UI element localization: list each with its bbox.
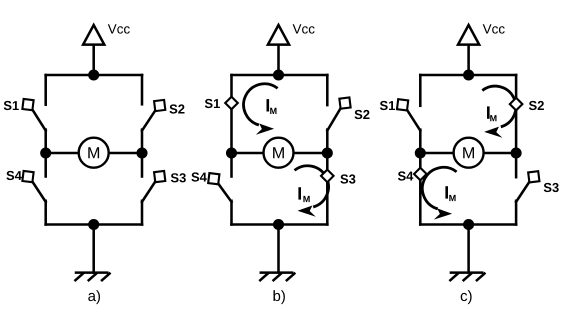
label S1 (c) bbox=[380, 101, 395, 110]
junction node bottom (a) bbox=[88, 219, 99, 230]
label S4 (a) bbox=[6, 171, 21, 180]
switch S3 (c) handle square bbox=[528, 171, 539, 182]
label b) bbox=[274, 290, 285, 304]
switch S2 (b) handle square bbox=[339, 97, 350, 108]
ground symbol (c) bbox=[450, 273, 484, 281]
bottom rail wire (a) bbox=[46, 223, 142, 226]
junction node mid-left (b) bbox=[226, 147, 237, 158]
switch S3 (a) lower wire bbox=[141, 201, 144, 225]
switch S1 (c) fixed contact wire bbox=[419, 75, 422, 106]
switch S2 (a) blade bbox=[142, 109, 156, 130]
switch S2 (c) closed-contact diamond bbox=[510, 98, 523, 111]
ground symbol (a) bbox=[75, 273, 109, 281]
switch S1 (c) lower wire bbox=[419, 130, 422, 153]
label c) bbox=[461, 290, 472, 304]
switch S4 (b) fixed contact wire bbox=[230, 153, 233, 177]
current loop arrow IM lower (b) bbox=[295, 166, 329, 217]
switch S2 (b) fixed contact wire bbox=[326, 75, 329, 105]
switch S1 (b) closed-contact diamond bbox=[225, 97, 238, 110]
switch S3 (a) blade bbox=[142, 180, 156, 201]
switch S3 (b) closed-contact diamond bbox=[321, 170, 334, 183]
motor M (a) bbox=[79, 138, 109, 168]
current label IM lower (b) bbox=[298, 187, 309, 202]
switch S1 (c) blade bbox=[406, 109, 420, 131]
ground wire (b) bbox=[277, 225, 280, 273]
switch S2 (a) handle square bbox=[154, 100, 165, 111]
switch S3 (b) wire (closed) bbox=[326, 153, 329, 225]
label S2 (c) bbox=[529, 101, 544, 110]
junction node bottom (c) bbox=[463, 219, 474, 230]
current loop arrow IM upper (c) bbox=[482, 86, 516, 138]
top rail wire (b) bbox=[231, 74, 327, 77]
junction node bottom (b) bbox=[273, 219, 284, 230]
label S1 (a) bbox=[4, 101, 19, 110]
bottom rail wire (b) bbox=[231, 223, 327, 226]
switch S2 (c) wire (closed) bbox=[515, 75, 518, 153]
motor M (b) bbox=[264, 138, 294, 168]
switch S2 (a) fixed contact wire bbox=[141, 75, 144, 104]
Vcc label (b) bbox=[293, 24, 315, 33]
label S3 (c) bbox=[544, 183, 559, 192]
label S4 (b) bbox=[191, 172, 206, 181]
label S3 (b) bbox=[340, 174, 355, 183]
switch S4 (c) wire (closed) bbox=[419, 153, 422, 225]
current loop arrow IM lower (c) bbox=[422, 167, 456, 219]
Vcc label (c) bbox=[483, 24, 505, 33]
current loop arrow IM upper (b) bbox=[244, 84, 278, 135]
current label IM upper (b) bbox=[267, 99, 277, 114]
switch S4 (a) blade bbox=[32, 180, 46, 201]
motor M (c) bbox=[454, 138, 484, 168]
switch S1 (a) fixed contact wire bbox=[44, 75, 47, 105]
junction node mid-right (a) bbox=[136, 147, 147, 158]
label S4 (c) bbox=[398, 171, 413, 180]
switch S4 (b) lower wire bbox=[230, 201, 233, 225]
Vcc supply symbol (c) bbox=[458, 25, 479, 75]
ground wire (c) bbox=[467, 225, 470, 273]
middle rail wire (a) bbox=[46, 152, 142, 155]
middle rail wire (c) bbox=[420, 152, 516, 155]
junction node mid-right (c) bbox=[511, 147, 522, 158]
current label IM upper (c) bbox=[487, 106, 497, 121]
ground wire (a) bbox=[92, 225, 95, 273]
switch S2 (b) blade bbox=[327, 107, 341, 131]
switch S1 (a) blade bbox=[32, 108, 46, 130]
label a) bbox=[88, 290, 100, 304]
Vcc supply symbol (a) bbox=[83, 25, 104, 75]
junction node top (c) bbox=[463, 69, 474, 80]
label S2 (b) bbox=[355, 110, 370, 119]
switch S4 (a) lower wire bbox=[44, 201, 47, 225]
switch S4 (b) handle square bbox=[208, 173, 219, 184]
switch S2 (b) lower wire bbox=[326, 130, 329, 153]
ground symbol (b) bbox=[260, 273, 294, 281]
switch S1 (a) handle square bbox=[22, 99, 33, 110]
junction node mid-left (a) bbox=[40, 147, 51, 158]
switch S3 (c) fixed contact wire bbox=[515, 153, 518, 177]
switch S1 (c) handle square bbox=[397, 99, 408, 110]
switch S3 (a) handle square bbox=[154, 171, 165, 182]
switch S4 (a) fixed contact wire bbox=[44, 153, 47, 177]
label S1 (b) bbox=[205, 99, 220, 108]
switch S3 (c) blade bbox=[516, 181, 530, 202]
junction node mid-left (c) bbox=[415, 147, 426, 158]
switch S4 (a) handle square bbox=[22, 171, 33, 182]
top rail wire (c) bbox=[420, 74, 516, 77]
junction node mid-right (b) bbox=[322, 147, 333, 158]
switch S1 (b) wire (closed) bbox=[230, 75, 233, 153]
switch S1 (a) lower wire bbox=[44, 130, 47, 153]
switch S2 (a) lower wire bbox=[141, 130, 144, 153]
label S2 (a) bbox=[170, 104, 185, 113]
junction node top (b) bbox=[273, 69, 284, 80]
switch S3 (c) lower wire bbox=[515, 201, 518, 225]
switch S4 (b) blade bbox=[217, 183, 231, 202]
label S3 (a) bbox=[171, 173, 186, 182]
middle rail wire (b) bbox=[232, 152, 328, 155]
switch S4 (c) closed-contact diamond bbox=[414, 168, 427, 181]
bottom rail wire (c) bbox=[420, 223, 516, 226]
junction node top (a) bbox=[88, 69, 99, 80]
current label IM lower (c) bbox=[445, 186, 455, 201]
Vcc supply symbol (b) bbox=[268, 25, 289, 75]
switch S3 (a) fixed contact wire bbox=[141, 153, 144, 177]
top rail wire (a) bbox=[46, 74, 142, 77]
Vcc label (a) bbox=[108, 24, 130, 33]
